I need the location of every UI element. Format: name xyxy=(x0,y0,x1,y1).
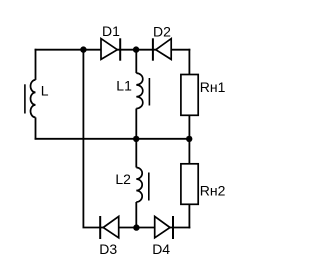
wire bottom horizontal bus xyxy=(83,227,191,229)
svg-text:L1: L1 xyxy=(116,77,132,93)
inductor L1 coil arcs xyxy=(136,73,143,108)
wire right rail top (to Rn1) xyxy=(188,49,190,75)
wire vertical B between L1 and middle wire xyxy=(135,109,137,168)
junction node bottom (136,228) xyxy=(133,224,139,230)
svg-text:L2: L2 xyxy=(115,171,131,187)
junction node right (189,139) xyxy=(186,136,192,142)
wire vertical from node A down to bottom bus xyxy=(82,50,84,228)
resistor Rn2 box xyxy=(181,164,198,205)
inductor L coil arcs xyxy=(31,80,36,118)
diode D1 triangle xyxy=(101,39,117,60)
diode D2 triangle xyxy=(156,39,171,60)
diode D3 triangle xyxy=(103,216,119,237)
junction node top-left (83,50) xyxy=(80,46,86,52)
wire left rail lower segment xyxy=(35,117,37,139)
svg-text:Rн2: Rн2 xyxy=(200,183,226,199)
diode D1 cathode bar xyxy=(119,38,121,60)
diode D3 cathode bar xyxy=(99,216,101,239)
svg-text:Rн1: Rн1 xyxy=(200,79,226,95)
wire top horizontal bus xyxy=(35,49,191,51)
inductor L2 core bar xyxy=(148,173,150,201)
wire right rail middle (Rn1 to Rn2) xyxy=(188,115,190,164)
inductor L core bar xyxy=(24,84,26,113)
wire vertical B lower (L2 to bottom bus) xyxy=(135,202,137,228)
svg-text:D4: D4 xyxy=(152,241,170,257)
junction node top-middle (136,50) xyxy=(133,46,139,52)
wire left rail upper segment xyxy=(35,49,37,80)
junction node center (136,139) xyxy=(133,136,139,142)
diode D4 cathode bar xyxy=(172,216,174,239)
diode D4 triangle xyxy=(155,216,170,237)
svg-text:D1: D1 xyxy=(102,23,120,39)
diode D2 cathode bar xyxy=(152,38,154,60)
inductor L1 core bar xyxy=(148,78,150,106)
svg-text:D3: D3 xyxy=(99,241,117,257)
svg-text:D2: D2 xyxy=(153,23,171,39)
svg-text:L: L xyxy=(41,82,49,98)
resistor Rn1 box xyxy=(181,75,198,116)
wire middle horizontal (center tap) xyxy=(35,138,191,140)
wire vertical B upper (top bus to L1) xyxy=(135,50,137,73)
inductor L2 coil arcs xyxy=(136,168,142,203)
wire right rail bottom (Rn2 to bottom bus) xyxy=(188,204,190,228)
